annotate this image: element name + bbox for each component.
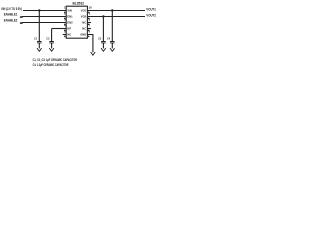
wire ENABLE2: [22, 22, 67, 24]
svg-text:C1, C2, C3: 1µF CERAMIC CAPACI: C1, C2, C3: 1µF CERAMIC CAPACITOR: [33, 58, 78, 62]
wire pin8 stub: [87, 22, 91, 24]
pin labels inside right: [80, 8, 86, 36]
svg-text:8: 8: [89, 18, 91, 22]
wire pin7 stub: [87, 28, 91, 30]
node ENABLE1 connector mark: [20, 16, 23, 18]
pin entry marks right: [88, 12, 89, 37]
capacitor C2: [46, 36, 54, 48]
wire pin5 stub: [63, 34, 66, 36]
svg-text:BL8532: BL8532: [73, 2, 85, 6]
svg-text:VIN (2.5 TO 5.5V): VIN (2.5 TO 5.5V): [1, 7, 22, 11]
ground C2 arrow: [49, 48, 54, 51]
svg-text:6: 6: [89, 30, 91, 34]
wire C2 drop: [51, 29, 53, 42]
svg-text:NC: NC: [82, 26, 86, 30]
pin numbers right 10-6: [89, 6, 93, 34]
wire VOUT1: [87, 10, 145, 12]
svg-text:2: 2: [64, 12, 66, 16]
svg-text:EN2: EN2: [67, 20, 73, 24]
svg-text:C2: C2: [46, 36, 49, 40]
wire ENABLE1: [22, 16, 67, 18]
svg-text:VOUT1: VOUT1: [146, 7, 156, 11]
svg-text:ENABLE1: ENABLE1: [4, 13, 18, 17]
svg-text:VO2: VO2: [81, 14, 87, 18]
wire pin4 bypass: [52, 28, 67, 30]
pin numbers left 1-5: [64, 6, 66, 34]
wire C1 drop: [38, 11, 40, 42]
node junction C4: [111, 9, 113, 11]
svg-text:7: 7: [89, 24, 91, 28]
svg-text:C1: C1: [34, 36, 37, 40]
svg-text:GND: GND: [80, 32, 86, 36]
capacitor C1: [34, 36, 42, 48]
wire C4 drop: [111, 11, 113, 42]
svg-text:1: 1: [64, 6, 66, 10]
node junction C1: [38, 9, 40, 11]
svg-text:EN1: EN1: [67, 14, 73, 18]
ground C1 arrow: [37, 48, 42, 51]
op-amp U1 (IC body BL8532): [66, 2, 87, 39]
svg-text:5: 5: [64, 30, 66, 34]
ground C3 arrow: [101, 48, 106, 51]
svg-text:ENABLE2: ENABLE2: [4, 19, 18, 23]
wire VIN: [23, 10, 66, 12]
svg-text:VIN: VIN: [67, 8, 72, 12]
wire VOUT2: [87, 16, 145, 18]
svg-text:3: 3: [64, 18, 66, 22]
svg-text:C4: C4: [107, 36, 110, 40]
svg-text:10: 10: [89, 6, 93, 10]
svg-text:VOUT2: VOUT2: [146, 13, 156, 17]
pin entry marks left: [64, 12, 65, 37]
node ENABLE2 connector mark: [20, 22, 23, 24]
svg-text:BP: BP: [67, 26, 71, 30]
pin labels inside left: [67, 8, 73, 36]
svg-text:VO1: VO1: [81, 8, 87, 12]
svg-text:9: 9: [89, 12, 91, 16]
svg-text:NC: NC: [82, 20, 86, 24]
svg-text:4: 4: [64, 24, 66, 28]
svg-text:NC: NC: [67, 32, 71, 36]
capacitor C3: [98, 36, 106, 48]
svg-text:C3: C3: [98, 36, 101, 40]
ground C4 arrow: [110, 48, 115, 51]
svg-text:C4: 2.2µF CERAMIC CAPACITOR: C4: 2.2µF CERAMIC CAPACITOR: [33, 63, 69, 67]
wire GND pin6: [87, 35, 93, 53]
node junction C3: [102, 15, 104, 17]
capacitor C4: [107, 36, 115, 48]
wire C3 drop: [102, 17, 104, 42]
ground GND arrow: [91, 52, 96, 55]
